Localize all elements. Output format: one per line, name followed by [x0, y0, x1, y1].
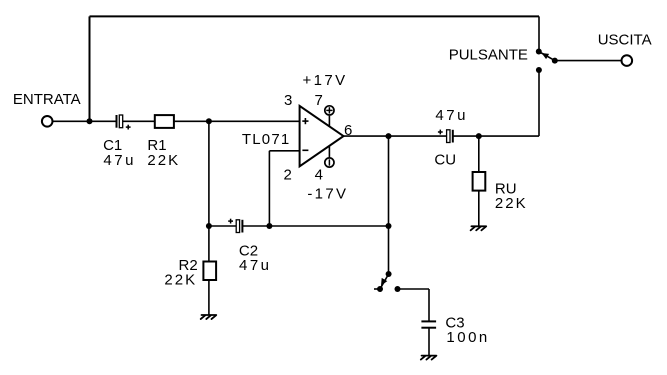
svg-text:+17V: +17V	[303, 72, 348, 89]
wire top feedback drop to switch	[538, 16, 540, 51]
capacitor C3	[421, 321, 436, 327]
switch C3	[374, 271, 401, 292]
svg-text:3: 3	[284, 92, 292, 109]
capacitor C2	[236, 220, 242, 233]
capacitor C1	[117, 115, 123, 128]
wire inverting up	[268, 151, 270, 226]
capacitor CU	[447, 130, 453, 143]
op-amp plus mark	[302, 118, 308, 124]
junction inverting node	[266, 223, 272, 229]
svg-text:47u: 47u	[239, 257, 272, 274]
op-amp U1 TL071	[300, 106, 344, 166]
svg-text:PULSANTE: PULSANTE	[449, 46, 528, 63]
svg-text:47u: 47u	[435, 107, 468, 124]
wire C3 to ground	[428, 328, 430, 356]
wire node down to R2	[208, 121, 210, 261]
svg-text:47u: 47u	[103, 152, 136, 169]
wire feedback left drop	[89, 16, 91, 121]
plus C1	[126, 125, 131, 130]
op-amp minus mark	[302, 149, 308, 151]
svg-text:22K: 22K	[495, 195, 528, 212]
wire bottom left	[209, 225, 236, 227]
svg-text:4: 4	[315, 167, 323, 184]
wire CU to riser	[453, 135, 539, 137]
resistor R1	[155, 115, 174, 128]
switch PULSANTE	[536, 49, 558, 74]
wire switch to C3	[398, 288, 430, 290]
plus C2	[228, 219, 233, 224]
terminal ENTRATA	[42, 116, 53, 127]
svg-text:ENTRATA: ENTRATA	[13, 91, 81, 108]
junction input node	[87, 118, 93, 124]
resistor R2	[203, 262, 216, 281]
svg-text:100n: 100n	[446, 329, 489, 346]
wire output to pulsante riser	[538, 70, 540, 136]
svg-text:CU: CU	[434, 152, 456, 169]
wire C3 top	[428, 289, 430, 321]
wire output	[344, 135, 447, 137]
junction C2 left node	[206, 223, 212, 229]
wire output down to switch	[388, 136, 390, 274]
ground R2	[201, 315, 217, 319]
supply +17V terminal	[325, 106, 334, 127]
plus CU	[438, 130, 443, 135]
resistor RU	[473, 172, 486, 191]
supply -17V terminal	[325, 146, 334, 167]
wire C1 to R1	[123, 120, 155, 122]
svg-text:7: 7	[315, 92, 323, 109]
junction feedback bottom	[386, 223, 392, 229]
wire R2 to ground	[208, 280, 210, 315]
wire inverting to pin 2	[269, 150, 299, 152]
wire top feedback	[90, 15, 540, 17]
wire R1 to op-amp	[174, 120, 300, 122]
wire input	[53, 120, 116, 122]
svg-text:22K: 22K	[164, 272, 197, 289]
wire switch to USCITA	[555, 60, 621, 62]
wire RU top	[478, 136, 480, 172]
svg-text:22K: 22K	[147, 152, 180, 169]
svg-text:-17V: -17V	[307, 185, 348, 202]
svg-text:2: 2	[284, 166, 292, 183]
ground RU	[471, 226, 487, 230]
wire C2 to feedback node	[243, 225, 389, 227]
junction output node	[386, 133, 392, 139]
junction CU RU node	[476, 133, 482, 139]
svg-text:USCITA: USCITA	[598, 32, 652, 49]
svg-text:TL071: TL071	[242, 131, 291, 148]
terminal USCITA	[622, 55, 633, 66]
junction R1 right node	[206, 118, 212, 124]
ground C3	[421, 356, 437, 360]
wire RU to ground	[478, 191, 480, 227]
